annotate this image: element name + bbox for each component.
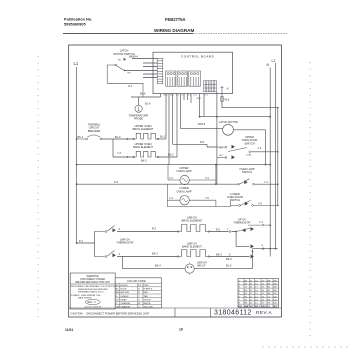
svg-text:BAKE ELEMENT: BAKE ELEMENT	[182, 245, 202, 249]
wire lamp bus upper	[77, 164, 271, 166]
svg-text:Y-4: Y-4	[205, 176, 209, 180]
svg-text:318046112: 318046112	[214, 310, 252, 317]
svg-text:Y-5: Y-5	[258, 201, 262, 205]
svg-text:SWITCH: SWITCH	[230, 198, 240, 202]
svg-text:CAUTION: DISCONNECT POWER B: CAUTION: DISCONNECT POWER BEFORE SERVICI…	[71, 311, 150, 315]
svg-text:Y-3: Y-3	[117, 151, 121, 155]
wire lamp bus lower	[77, 183, 238, 185]
latch motor switch label	[113, 49, 134, 56]
svg-text:BLACK: BLACK	[121, 284, 129, 287]
svg-text:BK-3: BK-3	[152, 251, 158, 255]
svg-text:19: 19	[179, 328, 183, 332]
wire broil to right cluster	[210, 231, 237, 233]
svg-text:NC: NC	[118, 59, 122, 61]
wire ind lamp right	[194, 249, 252, 269]
svg-text:WIRING DIAGRAM: WIRING DIAGRAM	[154, 28, 194, 33]
svg-text:TAN: TAN	[144, 295, 149, 298]
wire board pin to aux rail	[222, 94, 278, 108]
warning oval	[85, 299, 100, 304]
header publication number	[64, 17, 92, 27]
svg-text:Y-1: Y-1	[259, 220, 263, 224]
svg-text:AMP: AMP	[244, 305, 249, 308]
svg-text:ORANGE: ORANGE	[121, 302, 131, 305]
svg-text:O: O	[116, 303, 118, 305]
lower oven lamp label	[176, 186, 191, 193]
wire P-1 from L1	[77, 242, 95, 244]
upper oven bake element	[133, 151, 159, 157]
svg-text:BAKE ELEMENT: BAKE ELEMENT	[133, 145, 153, 149]
latch motor switch loop	[107, 65, 143, 97]
svg-text:WARNING: WARNING	[86, 274, 98, 278]
svg-text:Y-5: Y-5	[205, 196, 209, 200]
svg-text:CONTROL BOARD: CONTROL BOARD	[181, 55, 215, 59]
wire branch to bake row	[113, 139, 133, 157]
svg-text:PINK: PINK	[144, 285, 150, 287]
wire broil right	[159, 138, 166, 140]
thermal circuit breaker	[77, 135, 101, 139]
svg-text:BL-3: BL-3	[115, 135, 121, 139]
svg-text:BROWN: BROWN	[121, 292, 130, 294]
svg-text:PROBE: PROBE	[134, 117, 143, 121]
svg-text:BK/W-4: BK/W-4	[129, 54, 138, 58]
svg-text:BREAKER: BREAKER	[88, 129, 101, 133]
board pin A	[221, 86, 224, 94]
svg-text:SWITCH: SWITCH	[242, 170, 252, 174]
lower oven lamp	[167, 199, 216, 201]
relay K3	[189, 71, 201, 86]
wire L2 vertical bus	[274, 63, 276, 249]
svg-text:RED: RED	[144, 292, 149, 294]
svg-text:G: G	[116, 296, 118, 298]
svg-text:GRAY: GRAY	[121, 298, 128, 301]
wire right aux vertical	[277, 108, 279, 206]
svg-text:5995360905: 5995360905	[64, 22, 86, 27]
wire bake to right	[210, 256, 250, 258]
svg-text:NO: NO	[220, 147, 224, 149]
wire x216 drop	[216, 147, 218, 184]
upper oven broil element label	[133, 124, 154, 131]
wire drop and cross link	[236, 232, 249, 247]
svg-text:BK-2: BK-2	[141, 158, 147, 162]
warning box	[70, 273, 115, 309]
upper oven thermostat contact	[248, 224, 270, 226]
svg-text:L1: L1	[74, 61, 79, 66]
svg-text:REV.A: REV.A	[256, 310, 272, 315]
svg-text:11/01: 11/01	[65, 328, 73, 332]
svg-text:BL-4: BL-4	[140, 91, 146, 95]
svg-text:BR: BR	[116, 292, 119, 294]
thermostat branch vertical	[93, 232, 95, 257]
svg-text:R-6: R-6	[200, 140, 205, 144]
svg-text:PURPLE: PURPLE	[144, 289, 153, 291]
relay K1	[166, 71, 176, 86]
lower oven thermostat label (left)	[116, 237, 134, 244]
wire breaker to broil element	[102, 138, 133, 140]
wire temp probe loop	[131, 94, 161, 105]
oven lamp switch	[240, 179, 278, 185]
relay K2	[177, 71, 187, 86]
connector J2 grid	[204, 81, 217, 92]
upper oven door switch label	[242, 135, 258, 145]
svg-text:BK-4: BK-4	[155, 263, 161, 267]
svg-text:BROIL ELEMENT: BROIL ELEMENT	[182, 219, 203, 223]
svg-text:W-5: W-5	[225, 98, 230, 102]
svg-text:DISCONNECT POWER: DISCONNECT POWER	[80, 279, 105, 281]
svg-text:SWITCH: SWITCH	[244, 141, 254, 145]
svg-text:SYMBOL: USED WIRE AT THE: SYMBOL: USED WIRE AT THE	[71, 294, 101, 297]
upper oven thermostat label (right)	[233, 218, 251, 225]
board pin stub labels	[164, 95, 209, 101]
switch arrow	[124, 58, 126, 61]
wire motor to right	[233, 130, 265, 165]
pin chart table	[238, 279, 279, 308]
svg-text:A: A	[227, 87, 229, 91]
control board box	[153, 52, 233, 93]
svg-text:OVEN LAMP: OVEN LAMP	[176, 169, 191, 173]
svg-text:BK-2: BK-2	[168, 153, 174, 157]
caution band	[69, 307, 282, 309]
wire L1 vertical bus	[76, 67, 78, 243]
scan artifact dots	[38, 56, 348, 348]
oven lamp switch label	[239, 167, 254, 174]
upper oven bake element label	[133, 142, 153, 149]
upper door switch NC row	[217, 157, 225, 159]
lower thermostat switch upper	[94, 226, 114, 232]
svg-text:BLUE: BLUE	[121, 289, 127, 291]
svg-text:COLOR CODE: COLOR CODE	[127, 279, 146, 283]
lower thermostat switch lower	[94, 251, 114, 257]
svg-text:LATCH MOTOR: LATCH MOTOR	[219, 120, 238, 124]
svg-text:WHITE: WHITE	[144, 303, 152, 305]
svg-text:GREEN: GREEN	[121, 296, 129, 298]
lower oven indicator lamp label	[197, 261, 207, 268]
svg-text:BL-1: BL-1	[160, 135, 166, 139]
svg-text:BEFORE SERVICING THIS UNIT: BEFORE SERVICING THIS UNIT	[75, 282, 110, 284]
svg-text:NC: NC	[220, 155, 224, 157]
wire right link row	[253, 248, 278, 250]
lower oven door switch	[231, 200, 278, 205]
lower oven broil element	[178, 225, 210, 232]
svg-text:P-4: P-4	[114, 180, 119, 184]
svg-text:BK-3: BK-3	[216, 252, 222, 256]
fuse F1	[221, 97, 223, 102]
lower oven bake element label	[182, 242, 202, 249]
svg-text:GY: GY	[116, 299, 120, 301]
latch motor	[223, 124, 234, 135]
svg-text:R-2: R-2	[152, 226, 157, 230]
svg-text:NO: NO	[128, 73, 132, 75]
svg-text:THERMOSTAT: THERMOSTAT	[233, 221, 251, 225]
upper oven lamp	[168, 179, 216, 181]
svg-text:IND LP: IND LP	[197, 264, 206, 268]
svg-text:BK-1: BK-1	[78, 135, 84, 139]
temperature probe	[135, 105, 142, 112]
svg-text:WHEN REPLACING WIRE AND: WHEN REPLACING WIRE AND	[78, 288, 108, 291]
svg-text:BL-6: BL-6	[145, 102, 151, 106]
svg-text:Y-1: Y-1	[264, 180, 268, 184]
svg-text:G-1: G-1	[128, 84, 133, 88]
upper oven lamp label	[176, 166, 191, 173]
lower oven broil element label	[182, 215, 203, 222]
control board left connector	[157, 58, 163, 84]
svg-text:COM: COM	[246, 155, 251, 157]
thermal circuit breaker label	[88, 122, 101, 132]
upper oven door switch	[217, 147, 278, 152]
svg-text:REV - 3: REV - 3	[88, 302, 97, 304]
title rule	[63, 33, 193, 35]
upper oven broil element	[133, 133, 159, 139]
svg-text:BROIL ELEMENT: BROIL ELEMENT	[133, 127, 154, 131]
wire to lower broil element	[117, 231, 178, 233]
wire L1 to breaker row	[76, 138, 78, 140]
wire to lower bake element	[117, 256, 178, 258]
svg-text:Y-2: Y-2	[169, 176, 173, 180]
svg-text:VIOLET: VIOLET	[144, 299, 152, 301]
svg-text:FEB27T5A: FEB27T5A	[165, 17, 186, 22]
wire board drop to N	[200, 116, 271, 118]
svg-text:L2: L2	[272, 59, 276, 63]
svg-text:BK-3: BK-3	[226, 257, 232, 261]
wire lamp return box	[167, 184, 230, 206]
svg-text:R-2: R-2	[216, 227, 221, 231]
wire bake right	[159, 152, 177, 157]
svg-text:TERMINALS RATED 250°C: TERMINALS RATED 250°C	[78, 290, 104, 293]
color code table	[115, 278, 161, 308]
svg-text:THERMOSTAT: THERMOSTAT	[116, 241, 134, 245]
svg-text:Y-4: Y-4	[258, 146, 262, 150]
svg-text:OVEN LAMP: OVEN LAMP	[176, 189, 191, 193]
svg-text:W/R-6: W/R-6	[198, 122, 206, 126]
lower oven indicator lamp	[123, 257, 186, 269]
svg-text:BL-5: BL-5	[226, 263, 232, 267]
thermostat blade upper	[236, 228, 250, 231]
wire drops from board	[166, 92, 217, 165]
lower oven bake element	[178, 250, 210, 257]
svg-text:Y-4: Y-4	[169, 196, 173, 200]
main frame	[69, 45, 282, 317]
svg-text:P-1: P-1	[79, 239, 84, 243]
wire N vertical bus	[269, 68, 271, 257]
latch motor switch contact	[116, 66, 123, 71]
wires switch to control board	[124, 59, 157, 78]
lower oven door switch label	[227, 192, 243, 202]
svg-text:BROIL/BAKE: USE WIRE AND COLOR: BROIL/BAKE: USE WIRE AND COLOR NOTED	[71, 285, 116, 288]
scan artifact dotted line left	[0, 0, 1, 1]
wire R-6 horizontal	[173, 144, 217, 147]
wire W/R-6 to latch motor	[181, 128, 223, 130]
